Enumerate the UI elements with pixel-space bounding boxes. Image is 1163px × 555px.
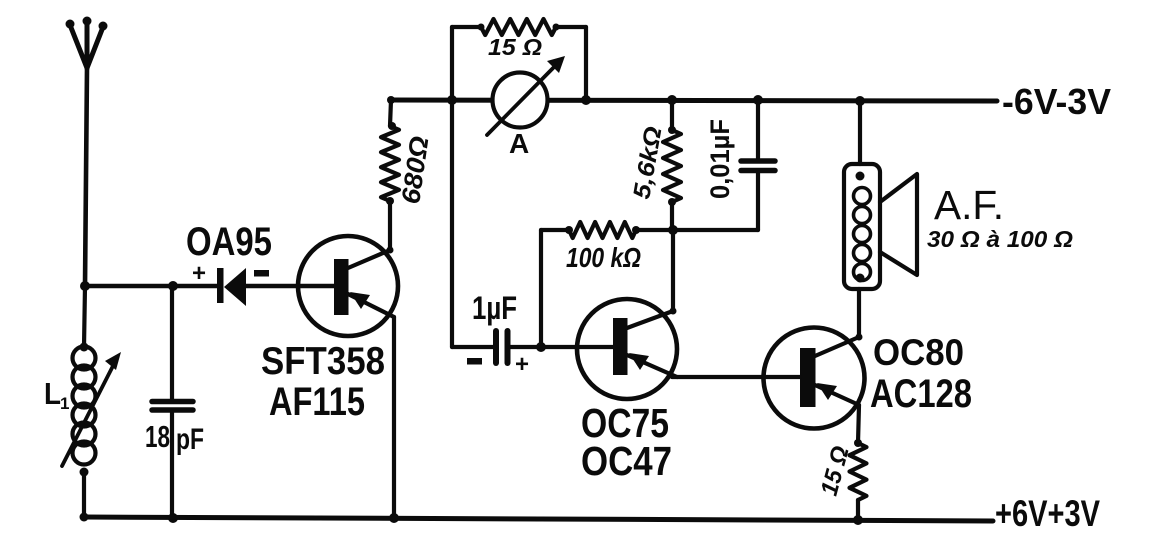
wire R680 to top rail	[390, 100, 391, 126]
wire 100k right lead	[636, 228, 758, 232]
node transformer rail junction	[855, 96, 865, 106]
resistor R 15 ohm bottom	[850, 443, 867, 500]
svg-text:pF: pF	[176, 423, 204, 456]
wire loop top left	[452, 25, 481, 29]
svg-text:A.F.: A.F.	[934, 182, 1004, 228]
node Q1 collector elbow blob	[387, 247, 394, 254]
node R56k bottom blob	[668, 198, 676, 206]
node loop right junction	[581, 95, 591, 105]
label 1uF minus	[467, 358, 482, 365]
wire x452 down to 1uF	[450, 100, 454, 347]
svg-text:18: 18	[145, 419, 170, 454]
node Q3 collector elbow blob	[856, 334, 863, 341]
wire L1 to bottom rail	[82, 472, 86, 517]
node C001 top junction	[753, 95, 763, 105]
wire transformer top to rail	[858, 101, 862, 164]
svg-text:OC80: OC80	[873, 332, 964, 373]
node Q2 collector elbow blob	[670, 308, 677, 315]
capacitor C 1uF	[496, 331, 508, 363]
wire 1uF left lead	[452, 345, 493, 349]
svg-text:0,01µF: 0,01µF	[705, 119, 735, 199]
node R680 bottom blob	[386, 197, 394, 205]
svg-text:680Ω: 680Ω	[395, 134, 434, 206]
svg-text:SFT358: SFT358	[261, 340, 385, 383]
svg-text:+6V+3V: +6V+3V	[995, 493, 1100, 534]
antenna	[66, 17, 108, 69]
node R680 top blob	[388, 122, 396, 130]
top rail -6V	[391, 100, 997, 101]
wire Q1 collector up	[388, 201, 392, 250]
svg-text:+: +	[192, 260, 206, 287]
wire Q1 emitter down	[392, 317, 396, 518]
speaker horn	[880, 174, 917, 275]
svg-text:15 Ω: 15 Ω	[816, 443, 855, 499]
node R15top left blob	[478, 24, 485, 31]
resistor R 680 ohm	[381, 126, 399, 201]
node R15top right blob	[553, 24, 560, 31]
node Q1 emitter rail junction	[389, 513, 399, 523]
ammeter A	[487, 56, 565, 135]
wire detector node horizontal	[85, 284, 218, 289]
node R56k top blob	[668, 126, 676, 134]
node rail-R680 corner blob	[387, 96, 395, 104]
diode OA95	[217, 268, 246, 306]
wire 100k left lead	[541, 228, 569, 232]
svg-text:AF115: AF115	[269, 380, 365, 424]
wire 1uF right lead to Q2 base	[510, 345, 614, 349]
svg-text:-6V-3V: -6V-3V	[1002, 81, 1111, 122]
node 1uF-100k junction	[536, 342, 546, 352]
svg-text:OA95: OA95	[186, 220, 272, 264]
wire R15 to bottom rail	[856, 500, 860, 521]
svg-text:AC128: AC128	[870, 372, 972, 416]
svg-text:100 kΩ: 100 kΩ	[566, 242, 641, 273]
node collector net junction	[668, 225, 678, 235]
resistor R 15 ohm top	[481, 19, 556, 35]
node loop left junction	[447, 95, 457, 105]
wire diode to transistor base	[246, 284, 334, 289]
node R15bot top blob	[854, 439, 862, 447]
svg-text:+: +	[515, 351, 529, 378]
bottom rail +6V	[84, 517, 993, 521]
inductor L1	[73, 343, 96, 477]
svg-text:OC47: OC47	[581, 438, 672, 484]
node 18pF top junction	[168, 281, 178, 291]
node R15 rail junction	[853, 515, 863, 525]
transistor Q1 SFT358/AF115	[298, 236, 398, 336]
transistor Q2 OC75/OC47	[577, 299, 677, 399]
node rail corner blob	[80, 513, 89, 522]
wire Q2 emitter to Q3 base	[672, 375, 764, 379]
node R100k left blob	[565, 226, 573, 234]
svg-text:1: 1	[60, 394, 69, 413]
wire loop right down	[584, 27, 588, 100]
node R100k right blob	[632, 226, 640, 234]
wire Q3 collector up to transformer	[857, 289, 861, 337]
label diode minus	[254, 270, 269, 277]
wire meter bypass loop left	[450, 27, 454, 100]
svg-text:A: A	[509, 128, 529, 159]
resistor R 5.6k	[663, 100, 681, 230]
transformer A.F. primary	[844, 164, 880, 289]
wire antenna to L1 top	[84, 286, 85, 347]
resistor R 100k	[569, 222, 636, 238]
L1 tuning arrow	[62, 352, 121, 466]
wire antenna down	[85, 68, 87, 286]
wire Q3 emitter down	[858, 405, 859, 443]
capacitor C 0.01uF	[741, 100, 775, 230]
svg-text:1µF: 1µF	[472, 290, 517, 326]
node 18pF bottom junction	[168, 513, 178, 523]
capacitor 18pF	[152, 286, 193, 518]
wire 100k left vertical	[539, 230, 543, 347]
transistor Q3 OC80/AC128	[764, 328, 865, 429]
node antenna junction	[80, 281, 90, 291]
wire loop top right	[556, 25, 586, 29]
svg-text:15 Ω: 15 Ω	[488, 34, 542, 60]
svg-text:30 Ω à 100 Ω: 30 Ω à 100 Ω	[927, 226, 1073, 252]
svg-text:L: L	[44, 376, 61, 411]
node R56k top junction	[667, 95, 677, 105]
wire Q2 collector up	[671, 230, 675, 311]
